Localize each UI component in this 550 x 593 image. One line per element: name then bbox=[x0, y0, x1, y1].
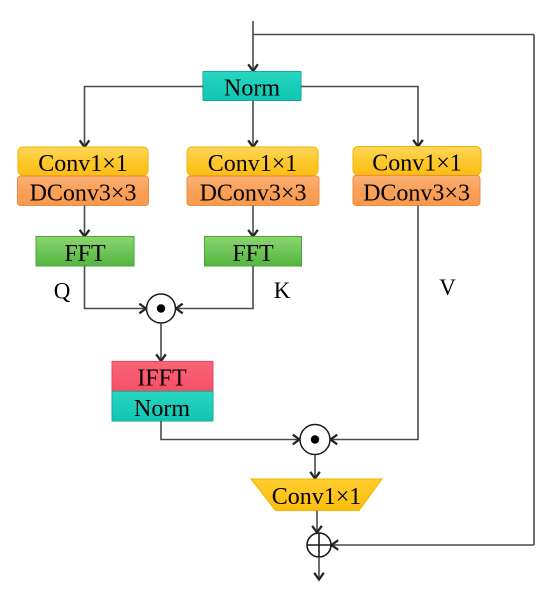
wire: right skip vertical bbox=[533, 35, 535, 546]
wire: output arrow bbox=[318, 557, 320, 580]
wire: multiply2 to Conv trapezoid bbox=[314, 455, 316, 479]
node V label bbox=[439, 275, 456, 300]
wire: multiply1 to IFFT bbox=[160, 323, 162, 361]
wire: Norm to V branch bbox=[301, 87, 418, 147]
wire: trapezoid to adder bbox=[316, 511, 318, 533]
box Conv1x1 (V branch) bbox=[353, 147, 481, 177]
svg-text:Norm: Norm bbox=[224, 75, 280, 101]
multiply node 2 (dot product) bbox=[300, 425, 330, 455]
wire: input vertical into Norm bbox=[252, 21, 254, 71]
svg-text:V: V bbox=[439, 275, 456, 300]
trapezoid Conv1x1 (output projection) bbox=[251, 479, 382, 511]
wire: Norm2 to multiply2 bbox=[161, 421, 300, 440]
box Norm (lower) bbox=[112, 391, 213, 421]
svg-text:IFFT: IFFT bbox=[137, 365, 187, 391]
box Conv1x1 (K branch) bbox=[187, 147, 318, 177]
svg-text:DConv3×3: DConv3×3 bbox=[30, 181, 137, 207]
box FFT (K branch) bbox=[205, 237, 302, 268]
svg-text:DConv3×3: DConv3×3 bbox=[200, 181, 307, 207]
wire: Norm to K branch bbox=[252, 101, 254, 148]
box IFFT bbox=[112, 361, 213, 391]
svg-text:Conv1×1: Conv1×1 bbox=[372, 150, 462, 176]
svg-text:K: K bbox=[274, 278, 291, 303]
box DConv3x3 (K branch) bbox=[187, 176, 319, 207]
wire: V branch to multiply2 bbox=[331, 206, 419, 440]
wire: top skip branch horizontal bbox=[253, 34, 534, 36]
node K label bbox=[274, 278, 291, 303]
svg-text:FFT: FFT bbox=[64, 241, 106, 267]
wire: DConv to FFT (K) bbox=[252, 206, 254, 237]
multiply node 1 (dot product) bbox=[147, 294, 176, 323]
svg-text:Conv1×1: Conv1×1 bbox=[272, 484, 362, 510]
adder node (circle plus) bbox=[307, 533, 331, 557]
svg-text:Conv1×1: Conv1×1 bbox=[38, 151, 128, 177]
box DConv3x3 (Q branch) bbox=[18, 176, 149, 207]
svg-text:Q: Q bbox=[54, 278, 71, 303]
box DConv3x3 (V branch) bbox=[353, 176, 480, 207]
svg-text:FFT: FFT bbox=[232, 241, 274, 267]
box Norm (top) bbox=[203, 72, 301, 102]
wire: skip into adder bbox=[332, 544, 535, 546]
box FFT (Q branch) bbox=[36, 237, 134, 268]
box Conv1x1 (Q branch) bbox=[18, 147, 148, 177]
wire: Norm to Q branch bbox=[85, 87, 204, 148]
svg-text:DConv3×3: DConv3×3 bbox=[363, 180, 470, 206]
svg-text:Norm: Norm bbox=[134, 396, 190, 422]
svg-text:Conv1×1: Conv1×1 bbox=[208, 151, 298, 177]
wire: DConv to FFT (Q) bbox=[84, 206, 86, 237]
wire: FFT K to multiply bbox=[176, 266, 253, 309]
node Q label bbox=[54, 278, 71, 303]
wire: FFT Q to multiply bbox=[85, 266, 147, 309]
